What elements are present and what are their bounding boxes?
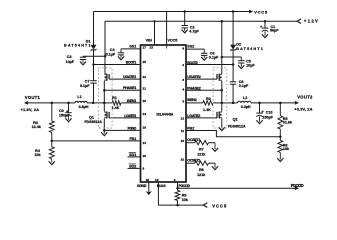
svg-text:21: 21 (143, 86, 147, 90)
svg-text:LGATE2: LGATE2 (187, 114, 200, 118)
svg-text:14: 14 (143, 141, 147, 145)
svg-text:3.3µH: 3.3µH (241, 105, 251, 109)
svg-text:19: 19 (143, 126, 147, 130)
svg-text:Q1: Q1 (89, 116, 94, 120)
svg-text:10µF: 10µF (66, 60, 75, 64)
svg-text:10k: 10k (182, 198, 189, 202)
svg-text:0.1µF: 0.1µF (80, 84, 90, 88)
svg-text:0.1µF: 0.1µF (106, 52, 116, 56)
svg-text:6: 6 (174, 178, 176, 182)
svg-text:R7: R7 (199, 148, 204, 152)
svg-text:11: 11 (181, 129, 185, 133)
svg-text:1.4K: 1.4K (203, 108, 211, 112)
svg-text:+1.8V, 2A: +1.8V, 2A (21, 107, 40, 112)
svg-text:150µF: 150µF (262, 115, 273, 119)
svg-text:22: 22 (143, 75, 147, 79)
svg-text:PGOOD: PGOOD (179, 184, 191, 188)
svg-text:+12V: +12V (304, 18, 318, 23)
svg-text:10: 10 (181, 158, 185, 162)
svg-text:10µF: 10µF (246, 64, 255, 68)
svg-text:9: 9 (143, 166, 145, 170)
svg-text:BAT54HT1: BAT54HT1 (64, 44, 91, 48)
svg-text:C9: C9 (59, 109, 64, 113)
svg-text:SS1: SS1 (129, 45, 136, 49)
svg-text:4.7µF: 4.7µF (189, 30, 199, 34)
svg-text:3.3µH: 3.3µH (79, 105, 89, 109)
svg-text:BAT54HT1: BAT54HT1 (236, 47, 262, 51)
svg-text:C3: C3 (67, 55, 72, 59)
svg-text:C10: C10 (266, 111, 273, 115)
svg-text:FB1: FB1 (129, 137, 136, 141)
svg-text:ISEN2: ISEN2 (187, 98, 197, 102)
svg-text:VOUT2: VOUT2 (297, 95, 313, 100)
svg-text:BIAS: BIAS (157, 184, 166, 188)
svg-text:Q2: Q2 (233, 118, 238, 122)
svg-text:13: 13 (155, 178, 159, 182)
svg-text:2: 2 (182, 63, 184, 67)
svg-text:FB2: FB2 (187, 126, 194, 130)
svg-text:R8: R8 (199, 168, 204, 172)
svg-text:VOUT1: VOUT1 (25, 95, 41, 100)
svg-text:PGOOD: PGOOD (291, 183, 304, 188)
svg-text:VCC5: VCC5 (168, 38, 178, 42)
svg-text:PHASE2: PHASE2 (187, 87, 201, 91)
svg-text:7: 7 (166, 46, 168, 50)
svg-text:18: 18 (143, 154, 147, 158)
svg-text:24: 24 (143, 112, 147, 116)
svg-text:OCSET2: OCSET2 (187, 159, 200, 163)
svg-text:56µF: 56µF (270, 29, 279, 33)
svg-text:BOOT2: BOOT2 (187, 61, 198, 65)
svg-text:LGATE1: LGATE1 (124, 114, 136, 118)
svg-text:SD2: SD2 (129, 164, 136, 168)
svg-text:10k: 10k (283, 147, 290, 151)
svg-text:3: 3 (182, 78, 184, 82)
svg-text:SD1: SD1 (129, 153, 136, 157)
svg-text:15: 15 (181, 139, 185, 143)
svg-text:0.1µF: 0.1µF (209, 56, 219, 60)
svg-text:0.1µF: 0.1µF (239, 84, 249, 88)
svg-text:SGND: SGND (137, 184, 147, 188)
svg-text:L1: L1 (77, 95, 81, 99)
svg-text:R9: R9 (182, 193, 187, 197)
svg-text:12: 12 (181, 117, 185, 121)
svg-text:10k: 10k (34, 153, 41, 157)
svg-text:C7: C7 (85, 79, 90, 83)
svg-text:+3.3V, 2A: +3.3V, 2A (294, 106, 312, 111)
svg-text:VCC5: VCC5 (254, 10, 268, 15)
svg-text:20: 20 (143, 99, 147, 103)
svg-text:FDS6912A: FDS6912A (84, 120, 102, 124)
svg-text:R1: R1 (112, 96, 117, 100)
svg-text:121k: 121k (197, 153, 206, 157)
svg-text:UGATE2: UGATE2 (187, 75, 201, 79)
svg-text:4: 4 (182, 88, 184, 92)
svg-text:150µF: 150µF (59, 114, 70, 118)
svg-text:25: 25 (143, 60, 147, 64)
svg-text:SS2: SS2 (187, 45, 194, 49)
svg-text:OCSET1: OCSET1 (187, 138, 200, 142)
svg-text:VCC5: VCC5 (212, 203, 227, 208)
svg-text:5: 5 (182, 100, 184, 104)
svg-text:PHASE1: PHASE1 (123, 86, 136, 90)
svg-text:16: 16 (146, 178, 150, 182)
svg-text:121k: 121k (197, 173, 206, 177)
svg-text:12.4k: 12.4k (32, 125, 42, 129)
svg-text:R2: R2 (206, 97, 211, 101)
svg-text:1.4K: 1.4K (112, 106, 120, 110)
svg-text:17: 17 (143, 45, 147, 49)
svg-text:UGATE1: UGATE1 (123, 75, 136, 79)
svg-text:13: 13 (150, 46, 154, 50)
svg-text:PGND: PGND (128, 126, 137, 130)
svg-text:FDS6912A: FDS6912A (228, 125, 246, 129)
svg-text:BOOT1: BOOT1 (126, 60, 137, 64)
svg-text:31.6k: 31.6k (283, 121, 293, 125)
svg-text:VIN: VIN (146, 38, 152, 42)
svg-text:L2: L2 (243, 96, 247, 100)
svg-text:ISEN1: ISEN1 (127, 99, 137, 103)
svg-text:8: 8 (182, 46, 184, 50)
svg-text:ISL6444IA: ISL6444IA (156, 112, 173, 116)
